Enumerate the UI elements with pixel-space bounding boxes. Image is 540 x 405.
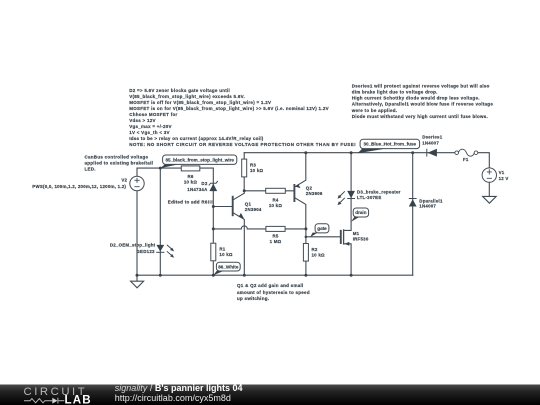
svg-text:1 MΩ: 1 MΩ <box>270 239 282 244</box>
svg-text:10 kΩ: 10 kΩ <box>269 203 283 208</box>
svg-text:V2: V2 <box>121 177 127 182</box>
svg-text:NOTE: NO SHORT CIRCUIT OR REVE: NOTE: NO SHORT CIRCUIT OR REVERSE VOLTAG… <box>129 142 356 147</box>
svg-text:drain: drain <box>355 210 366 215</box>
svg-text:D3_brake_repeater: D3_brake_repeater <box>357 189 401 194</box>
svg-text:http://circuitlab.com/cyx5m8d: http://circuitlab.com/cyx5m8d <box>115 393 231 403</box>
svg-text:CanBus controlled voltage: CanBus controlled voltage <box>85 154 149 159</box>
svg-text:1N4007: 1N4007 <box>422 140 439 145</box>
svg-text:dim brake light due to voltage: dim brake light due to voltage drop. <box>352 90 438 95</box>
svg-text:2N3906: 2N3906 <box>306 191 323 196</box>
svg-text:MOSFET is on for V(85_black_fr: MOSFET is on for V(85_black_from_stop_li… <box>129 106 329 111</box>
svg-text:were to be applied.: were to be applied. <box>351 108 398 113</box>
svg-text:IRF530: IRF530 <box>353 236 369 241</box>
svg-text:Chhose MOSFET for: Chhose MOSFET for <box>129 112 177 117</box>
svg-text:1N4734A: 1N4734A <box>187 187 208 192</box>
svg-text:amount of hysteresis to speed: amount of hysteresis to speed <box>237 290 310 295</box>
svg-text:GED123: GED123 <box>136 249 155 254</box>
svg-text:10 kΩ: 10 kΩ <box>219 252 233 257</box>
svg-text:10 kΩ: 10 kΩ <box>312 252 326 257</box>
svg-text:R6: R6 <box>187 174 193 179</box>
svg-text:R3: R3 <box>250 162 256 167</box>
svg-text:85_black_from_stop_light_wire: 85_black_from_stop_light_wire <box>165 157 234 162</box>
svg-text:R4: R4 <box>272 197 278 202</box>
svg-text:up switching.: up switching. <box>237 296 269 301</box>
svg-text:F1: F1 <box>463 157 469 162</box>
svg-text:10 kΩ: 10 kΩ <box>184 180 198 185</box>
svg-text:R5: R5 <box>272 234 278 239</box>
svg-text:Dseries1: Dseries1 <box>422 135 443 140</box>
svg-text:LAB: LAB <box>65 393 92 405</box>
svg-text:LED.: LED. <box>85 166 96 171</box>
svg-text:Idss to be > relay on current: Idss to be > relay on current (approx 14… <box>129 136 264 141</box>
svg-text:applied to existing brake/tail: applied to existing brake/tail <box>85 160 154 165</box>
svg-text:Diode must withstand very high: Diode must withstand very high current u… <box>352 114 488 119</box>
svg-text:Q1: Q1 <box>245 202 252 207</box>
svg-text:R1: R1 <box>219 246 225 251</box>
svg-text:1N4007: 1N4007 <box>419 203 436 208</box>
svg-text:12 V: 12 V <box>499 176 509 181</box>
svg-text:MOSFET is off for V(85_black_f: MOSFET is off for V(85_black_from_stop_l… <box>129 100 271 105</box>
svg-text:86_White: 86_White <box>218 264 239 269</box>
svg-text:gate: gate <box>317 226 327 231</box>
svg-text:Edited to add R6!!!: Edited to add R6!!! <box>168 200 213 205</box>
svg-text:D2: D2 <box>201 181 207 186</box>
svg-text:Q1 & Q2 add gain and small: Q1 & Q2 add gain and small <box>237 283 304 288</box>
svg-text:Vdss > 12V: Vdss > 12V <box>129 118 156 123</box>
svg-text:2N3904: 2N3904 <box>245 207 262 212</box>
svg-text:signality / B's pannier lights: signality / B's pannier lights 04 <box>115 383 243 393</box>
svg-text:Vgs_max = +/-20V: Vgs_max = +/-20V <box>129 124 172 129</box>
svg-text:D2_OEM_stop_light: D2_OEM_stop_light <box>110 243 156 248</box>
svg-text:Alternatively, Dparallel1 woul: Alternatively, Dparallel1 would blow fus… <box>352 102 494 107</box>
svg-text:LTL-307EE: LTL-307EE <box>357 195 382 200</box>
svg-text:V1: V1 <box>499 170 505 175</box>
svg-text:10 kΩ: 10 kΩ <box>250 168 264 173</box>
svg-text:V(85_black_from_stop_light_wir: V(85_black_from_stop_light_wire) exceeds… <box>129 94 245 99</box>
svg-text:30_Blue_Hot_from_fuse: 30_Blue_Hot_from_fuse <box>364 142 417 147</box>
svg-text:1V < Vgs_th < 3V: 1V < Vgs_th < 3V <box>129 130 170 135</box>
svg-text:Q2: Q2 <box>306 186 313 191</box>
svg-text:D2 => 5.6V zener blocks gate v: D2 => 5.6V zener blocks gate voltage unt… <box>129 88 230 93</box>
svg-text:PWS(0,0, 100m,1.2, 200m,12, 12: PWS(0,0, 100m,1.2, 200m,12, 1200m, 1.2) <box>32 184 126 189</box>
svg-text:High current Schottky diode wo: High current Schottky diode would drop l… <box>352 96 480 101</box>
svg-text:R2: R2 <box>312 247 318 252</box>
svg-text:Dseries1 will protect against: Dseries1 will protect against reverse vo… <box>352 83 490 88</box>
